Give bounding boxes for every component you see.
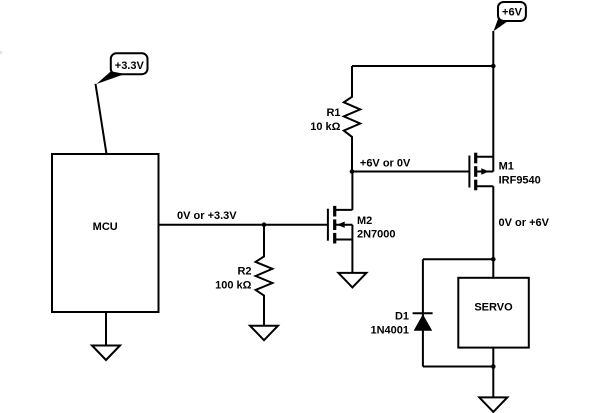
svg-text:0V or +3.3V: 0V or +3.3V [177,210,237,222]
svg-text:+6V or 0V: +6V or 0V [360,158,411,170]
svg-text:SERVO: SERVO [474,301,513,313]
svg-text:R2: R2 [237,266,251,278]
svg-text:D1: D1 [395,311,409,323]
svg-text:100 kΩ: 100 kΩ [215,280,252,292]
svg-text:M1: M1 [499,161,514,173]
svg-text:MCU: MCU [93,221,118,233]
svg-text:0V or +6V: 0V or +6V [499,217,550,229]
svg-text:M2: M2 [357,215,372,227]
svg-text:2N7000: 2N7000 [357,229,396,241]
svg-text:+6V: +6V [502,7,523,19]
svg-text:R1: R1 [326,107,340,119]
svg-text:1N4001: 1N4001 [370,325,409,337]
svg-text:10 kΩ: 10 kΩ [310,121,340,133]
svg-text:+3.3V: +3.3V [115,60,145,72]
svg-text:IRF9540: IRF9540 [499,175,541,187]
